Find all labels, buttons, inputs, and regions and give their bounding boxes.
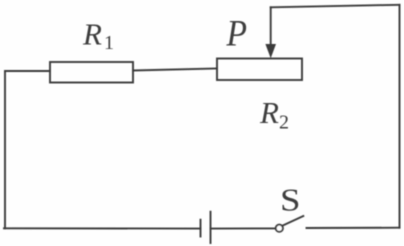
wiper arrow P [265,7,276,58]
resistor R1 [50,62,133,83]
wire R1 to R2 [133,69,217,71]
wire left vertical [4,71,6,228]
battery positive plate (long) [210,212,212,243]
wire bottom-left to battery [4,227,201,229]
svg-text:P: P [226,14,247,55]
switch S lever [282,216,303,226]
wire battery to switch [211,227,276,229]
wire right vertical [399,5,401,228]
battery negative plate (short) [200,220,202,237]
wire wiper to top-right [271,5,400,8]
potentiometer R2 body [217,59,302,81]
wire switch to bottom-right [307,227,400,229]
switch S pivot [276,225,283,232]
svg-text:S: S [280,182,301,218]
wire top-left horizontal [5,70,50,72]
